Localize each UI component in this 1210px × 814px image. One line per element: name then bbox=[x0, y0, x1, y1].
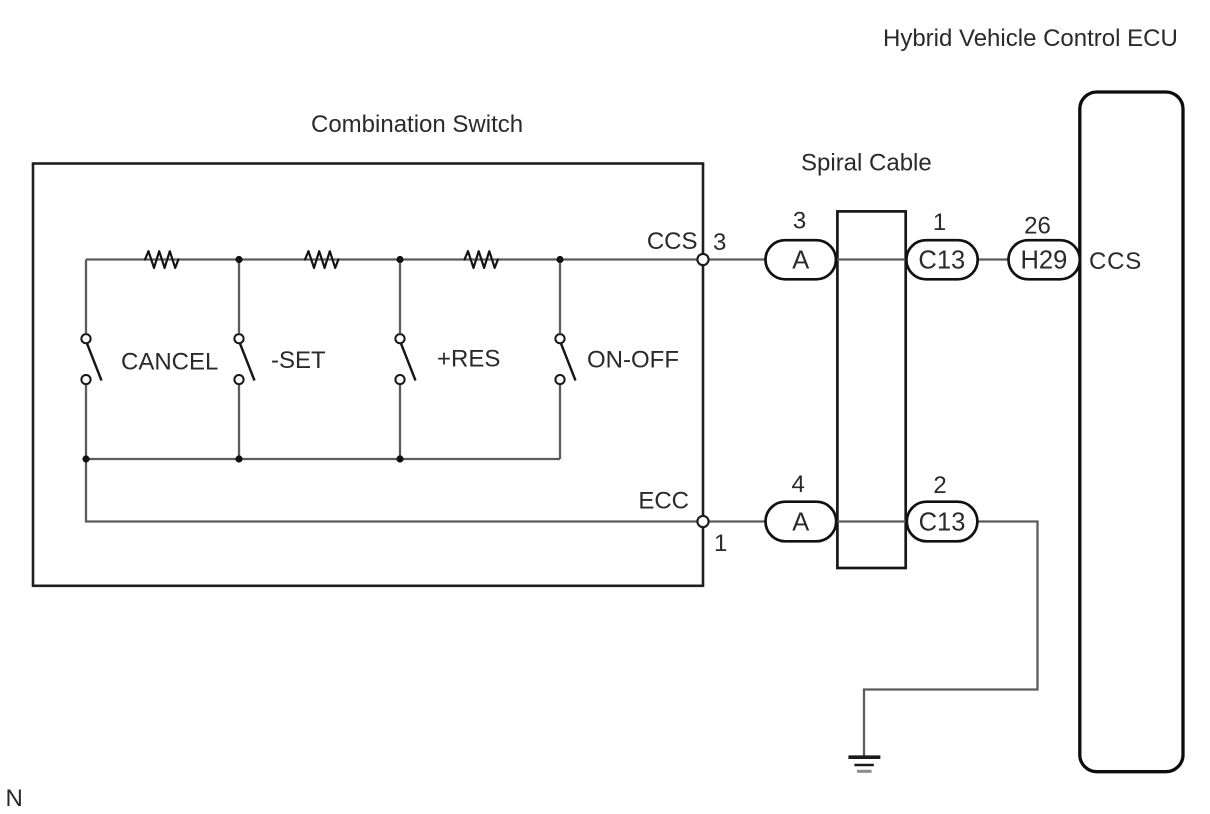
svg-text:CCS: CCS bbox=[647, 228, 698, 255]
svg-text:H29: H29 bbox=[1021, 247, 1068, 275]
svg-text:-SET: -SET bbox=[271, 347, 326, 374]
svg-text:Combination Switch: Combination Switch bbox=[311, 111, 523, 138]
svg-text:CCS: CCS bbox=[1089, 248, 1142, 275]
svg-text:26: 26 bbox=[1024, 212, 1051, 239]
svg-text:1: 1 bbox=[714, 530, 727, 557]
svg-text:ON-OFF: ON-OFF bbox=[587, 347, 679, 374]
svg-text:3: 3 bbox=[793, 207, 806, 234]
svg-text:3: 3 bbox=[713, 229, 726, 256]
svg-text:A: A bbox=[792, 247, 809, 275]
svg-text:C13: C13 bbox=[919, 508, 966, 536]
svg-text:+RES: +RES bbox=[437, 346, 500, 373]
svg-text:4: 4 bbox=[792, 471, 805, 498]
svg-text:Spiral Cable: Spiral Cable bbox=[801, 150, 932, 177]
svg-text:ECC: ECC bbox=[638, 488, 689, 515]
svg-text:N: N bbox=[6, 785, 23, 812]
svg-text:A: A bbox=[792, 508, 809, 536]
svg-text:C13: C13 bbox=[918, 247, 965, 275]
svg-text:1: 1 bbox=[933, 209, 946, 236]
svg-text:CANCEL: CANCEL bbox=[121, 349, 218, 376]
svg-text:2: 2 bbox=[933, 472, 946, 499]
svg-text:Hybrid Vehicle Control ECU: Hybrid Vehicle Control ECU bbox=[883, 25, 1178, 52]
